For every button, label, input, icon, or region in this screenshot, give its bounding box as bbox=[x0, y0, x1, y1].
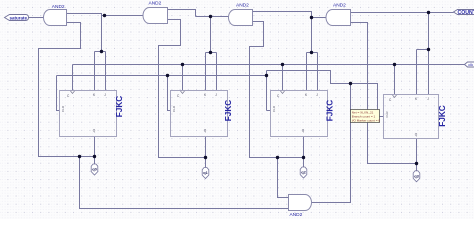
svg-text:I/O Marker count = 0: I/O Marker count = 0 bbox=[352, 118, 381, 122]
svg-text:AND2: AND2 bbox=[149, 1, 162, 7]
svg-text:AND2: AND2 bbox=[333, 2, 346, 8]
svg-text:AND2: AND2 bbox=[236, 3, 249, 9]
svg-text:FJKC: FJKC bbox=[326, 100, 335, 121]
svg-text:clk: clk bbox=[468, 62, 473, 67]
svg-text:CLR: CLR bbox=[385, 111, 389, 118]
svg-text:FJKC: FJKC bbox=[115, 96, 124, 117]
svg-text:CLR: CLR bbox=[272, 105, 276, 112]
svg-text:FJKC: FJKC bbox=[438, 105, 447, 126]
svg-text:AND2: AND2 bbox=[52, 4, 65, 10]
svg-text:COUNT: COUNT bbox=[458, 10, 474, 16]
svg-text:saturate: saturate bbox=[10, 15, 28, 20]
svg-text:q0: q0 bbox=[92, 167, 97, 172]
svg-text:AND2: AND2 bbox=[290, 212, 303, 218]
svg-text:FJKC: FJKC bbox=[224, 100, 233, 121]
svg-text:CLR: CLR bbox=[172, 105, 176, 112]
svg-text:CLR: CLR bbox=[61, 105, 65, 112]
